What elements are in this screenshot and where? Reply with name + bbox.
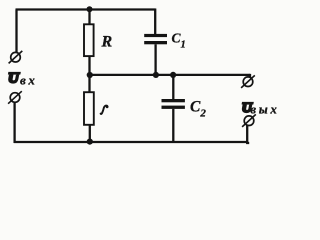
wire middle rail — [90, 74, 250, 76]
wire top-left vertical from input terminal up to top rail — [15, 10, 17, 53]
node junction C2 / middle rail — [170, 72, 176, 78]
terminal output top slash — [241, 75, 255, 88]
node junction C1 / middle rail — [153, 72, 159, 78]
terminal output bottom circle — [244, 116, 254, 126]
wire from C1 to middle rail — [154, 44, 156, 75]
capacitor C1 bottom plate — [144, 41, 167, 44]
capacitor C1 top plate — [144, 34, 167, 37]
terminal output bottom slash — [242, 114, 256, 127]
svg-text:U: U — [8, 71, 20, 87]
wire from r bottom to bottom rail — [89, 125, 91, 142]
svg-text:вых: вых — [250, 102, 279, 117]
svg-text:R: R — [101, 34, 113, 51]
wire from middle rail down to capacitor C2 — [172, 75, 174, 99]
wire from top rail down to resistor R — [88, 10, 90, 25]
wire bottom-left vertical from input terminal down to bottom rail — [13, 103, 15, 143]
capacitor C2 bottom plate — [162, 106, 185, 109]
resistor R body — [84, 24, 94, 56]
label r — [101, 106, 108, 114]
node junction bottom of r — [87, 139, 93, 145]
wire from R bottom through middle node to resistor r — [88, 56, 90, 92]
wire top rail — [16, 8, 156, 10]
resistor r body — [84, 92, 94, 125]
terminal input bottom slash — [8, 91, 22, 104]
wire from C2 down to bottom rail — [172, 109, 174, 142]
wire bottom rail — [14, 141, 248, 143]
wire from top rail down to capacitor C1 — [154, 9, 156, 35]
wire middle-rail right corner stub down to output terminal — [249, 74, 251, 77]
terminal input bottom circle — [10, 93, 20, 103]
svg-text:вх: вх — [20, 73, 38, 88]
terminal input top circle — [11, 52, 21, 62]
terminal input top slash — [9, 51, 23, 64]
terminal output top circle — [243, 77, 253, 87]
capacitor C2 top plate — [162, 99, 185, 102]
wire bottom-right vertical from output terminal down to bottom rail — [247, 126, 249, 144]
node junction R / r / middle rail — [87, 72, 93, 78]
node junction top of R — [87, 6, 93, 12]
